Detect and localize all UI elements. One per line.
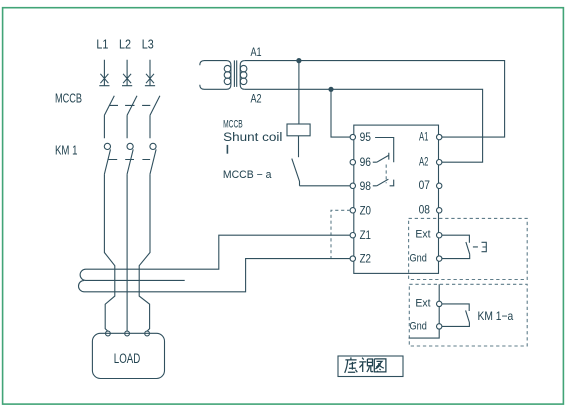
wire Z1 with CT loop <box>80 235 350 280</box>
wire A1 top rail <box>245 61 505 138</box>
svg-text:L1: L1 <box>96 38 108 52</box>
svg-text:MCCB: MCCB <box>223 119 243 131</box>
svg-text:MCCB: MCCB <box>55 92 82 106</box>
svg-text:L3: L3 <box>142 38 154 52</box>
svg-text:LOAD: LOAD <box>114 351 141 366</box>
contactor KM 1 pole 1 <box>104 143 117 174</box>
internal contact NC 96 <box>373 153 389 162</box>
transformer T core <box>234 60 236 87</box>
svg-text:L2: L2 <box>119 38 131 52</box>
wire phase 1 to load <box>104 174 114 331</box>
contact MCCB-a <box>292 159 300 186</box>
svg-text:07: 07 <box>419 178 430 192</box>
breaker MCCB label <box>55 92 82 106</box>
contactor KM 1 pole 3 <box>142 143 156 174</box>
breaker MCCB pole 3 <box>142 96 160 139</box>
internal contact NO 98 <box>373 179 395 186</box>
wire contact to terminal 98 <box>300 185 350 187</box>
svg-text:Z2: Z2 <box>360 252 371 266</box>
incoming terminal L3 <box>145 60 155 86</box>
svg-text:KM 1: KM 1 <box>55 143 78 157</box>
svg-text:95: 95 <box>360 130 371 144</box>
terminal Z2 <box>350 252 371 266</box>
terminal 95 <box>350 130 371 144</box>
internal contact link dashed <box>385 165 387 184</box>
load terminal circles <box>106 331 150 336</box>
wire Z2 with CT loop <box>79 259 350 292</box>
svg-text:A2: A2 <box>251 93 262 105</box>
wire A2 rail <box>245 89 483 162</box>
terminal Gnd <box>410 253 442 265</box>
terminal 08 <box>419 203 442 217</box>
svg-text:Z1: Z1 <box>360 228 371 242</box>
terminal 07 <box>419 178 442 192</box>
breaker MCCB pole 2 <box>125 96 137 139</box>
bus external contact block <box>409 284 440 338</box>
wire phase 2 to load <box>126 174 128 331</box>
svg-text:MCCB − a: MCCB − a <box>223 169 272 181</box>
symbol manual reset <box>473 242 486 251</box>
svg-text:96: 96 <box>360 155 371 169</box>
load box <box>92 333 164 378</box>
wire Z0 shield dashed <box>331 210 350 258</box>
dashed enclosure external trip <box>409 218 528 279</box>
svg-text:98: 98 <box>360 179 371 193</box>
contact external trip wiring <box>442 235 470 258</box>
contact KM 1-a wiring <box>442 304 469 327</box>
terminal Ext external <box>415 297 442 309</box>
coil MCCB shunt <box>287 124 310 136</box>
terminal 96 <box>350 155 371 169</box>
wire phase 3 to load <box>139 174 150 331</box>
terminal 98 <box>350 179 371 193</box>
svg-text:Gnd: Gnd <box>410 253 427 265</box>
terminal A2 <box>419 154 442 168</box>
svg-text:A2: A2 <box>419 154 428 168</box>
svg-text:KM 1−a: KM 1−a <box>478 309 514 323</box>
junction dot A2/95 <box>328 87 333 92</box>
terminal Z0 <box>350 203 371 217</box>
dashed enclosure KM 1-a <box>409 284 527 346</box>
svg-text:A1: A1 <box>251 47 262 59</box>
terminal Gnd external <box>410 320 442 332</box>
terminal block body <box>354 125 439 273</box>
title text 底视图 <box>345 357 386 373</box>
wire coil to contact <box>298 136 300 157</box>
svg-text:Gnd: Gnd <box>410 320 427 332</box>
terminal Ext <box>415 229 442 241</box>
contactor KM 1 pole 2 <box>125 143 134 174</box>
incoming terminal L2 <box>122 60 132 86</box>
svg-text:Ext: Ext <box>415 297 430 309</box>
node L3 <box>142 38 154 52</box>
terminal Z1 <box>350 228 371 242</box>
node L1 <box>96 38 108 52</box>
label MCCB - a <box>223 169 272 181</box>
svg-text:Z0: Z0 <box>360 203 371 217</box>
wire A2 to terminal 95 <box>331 89 350 137</box>
transformer T secondary winding <box>240 61 247 90</box>
label KM 1-a <box>478 309 514 323</box>
transformer T primary winding <box>200 61 231 90</box>
svg-text:08: 08 <box>419 203 431 217</box>
svg-text:Ext: Ext <box>415 229 430 241</box>
svg-text:A1: A1 <box>419 129 428 143</box>
node L2 <box>119 38 131 52</box>
label A2 secondary <box>251 93 262 105</box>
terminal A1 <box>419 129 442 143</box>
svg-text:Shunt coil: Shunt coil <box>223 130 282 144</box>
breaker MCCB pole 1 <box>104 96 118 139</box>
wire A1 to shunt coil <box>298 61 300 124</box>
internal contact common 95 <box>375 138 394 163</box>
load label <box>114 351 141 366</box>
incoming terminal L1 <box>99 60 109 86</box>
contactor KM 1 label <box>55 143 78 157</box>
label A1 secondary <box>251 47 262 59</box>
label MCCB shunt coil <box>223 119 282 154</box>
title box bottom view <box>338 356 403 377</box>
junction dot A1/coil <box>296 58 301 63</box>
